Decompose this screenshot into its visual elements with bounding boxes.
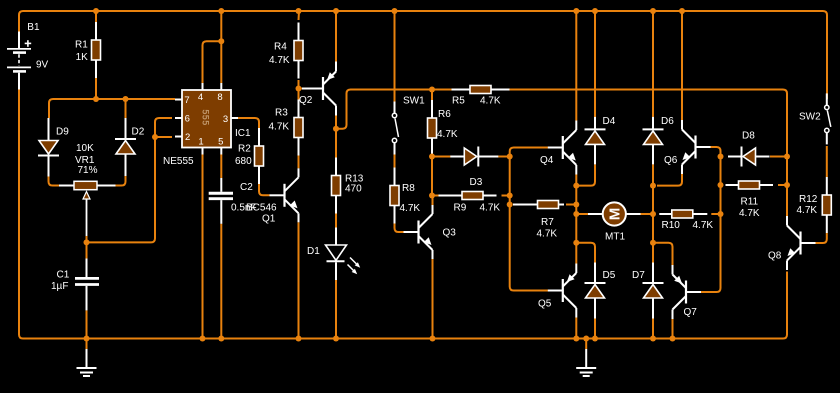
svg-text:Q2: Q2 xyxy=(299,95,313,106)
svg-text:4.7K: 4.7K xyxy=(480,96,501,107)
junction D3/R6 xyxy=(429,154,435,160)
svg-text:1µF: 1µF xyxy=(51,281,68,292)
junction R11 right/Q8 collector xyxy=(784,182,790,188)
capacitor C1 1uF xyxy=(75,259,99,311)
wire 0V bottom rail xyxy=(19,90,787,339)
wire D5 anode to rail xyxy=(594,319,596,339)
wire left base column mid1 xyxy=(509,157,511,196)
junction rail ground2 xyxy=(583,336,589,342)
svg-text:4.7K: 4.7K xyxy=(437,129,458,140)
svg-text:R1: R1 xyxy=(75,40,88,51)
svg-text:R8: R8 xyxy=(402,183,415,194)
wire R6 bottom xyxy=(431,154,433,158)
wire D6 bottom xyxy=(652,165,654,186)
svg-text:MT1: MT1 xyxy=(605,232,625,243)
svg-text:D6: D6 xyxy=(661,116,674,127)
wire pin4 branch xyxy=(203,41,222,83)
wire D4 top from rail xyxy=(594,11,596,117)
wire D7 anode to rail xyxy=(652,319,654,339)
junction rail Q5 xyxy=(573,336,579,342)
wire R2 to Q1 base xyxy=(259,184,270,195)
junction node D3 right xyxy=(507,154,513,160)
svg-text:8: 8 xyxy=(217,92,222,103)
junction rail pins4+8 xyxy=(218,8,224,14)
junction D8 right xyxy=(784,154,790,160)
wire right motor column 2 xyxy=(652,214,654,243)
resistor R5 4.7K xyxy=(452,86,510,94)
wire right base column mid2 xyxy=(720,185,722,214)
transistor Q2 xyxy=(302,62,336,116)
junction motor left xyxy=(573,211,579,217)
wire R10 right xyxy=(711,213,720,215)
junction R10 right xyxy=(718,211,724,217)
svg-text:R10: R10 xyxy=(662,220,681,231)
junction motor right/R10 xyxy=(650,211,656,217)
diode D9 xyxy=(38,118,59,177)
resistor R7 4.7K xyxy=(513,201,564,209)
diode D5 xyxy=(585,263,606,319)
svg-text:D4: D4 xyxy=(603,116,616,127)
wire Q2 collector to R13 xyxy=(335,116,337,158)
wire C1 bottom to rail xyxy=(86,310,88,338)
wire Q4 collector from rail xyxy=(575,11,577,121)
svg-text:4.7K: 4.7K xyxy=(480,203,501,214)
junction rail Q4 collector xyxy=(573,8,579,14)
wire Q7 emitter link xyxy=(653,243,673,266)
transistor Q6 xyxy=(682,120,711,174)
wire R1 top xyxy=(95,11,97,22)
svg-text:4.7K: 4.7K xyxy=(797,205,818,216)
junction R11 left xyxy=(718,182,724,188)
ground xyxy=(576,349,596,376)
wire +9V top rail xyxy=(19,11,827,99)
resistor R9 4.7K xyxy=(439,192,497,200)
svg-text:10K: 10K xyxy=(76,143,94,154)
wire R9 left xyxy=(432,195,444,197)
svg-text:4.7K: 4.7K xyxy=(400,203,421,214)
junction pin4 tee xyxy=(218,38,224,44)
wire right base column to Q7 xyxy=(700,214,721,292)
wire D4 anode link xyxy=(576,165,595,186)
motor MT1 xyxy=(588,202,641,225)
junction rail D5 xyxy=(592,336,598,342)
wire left base column top to Q4 xyxy=(510,148,550,157)
svg-text:4: 4 xyxy=(198,92,203,103)
wire pin1 to rail xyxy=(202,155,204,339)
svg-text:C1: C1 xyxy=(57,270,70,281)
wire D1 cathode to rail xyxy=(335,280,337,339)
svg-text:C2: C2 xyxy=(240,182,253,193)
wire SW1 from rail xyxy=(394,11,396,102)
svg-text:6: 6 xyxy=(185,114,190,125)
wire Q6 emitter link xyxy=(657,174,682,186)
junction wiper node xyxy=(84,239,90,245)
svg-text:D5: D5 xyxy=(603,270,616,281)
wire D8 right xyxy=(770,156,787,158)
svg-text:4.7K: 4.7K xyxy=(269,55,290,66)
wire motor right xyxy=(641,213,654,215)
junction D5/Q5 xyxy=(573,240,579,246)
wire D2 anode to VR1 xyxy=(116,176,126,186)
svg-text:3: 3 xyxy=(223,114,228,125)
junction rail R4 xyxy=(296,8,302,14)
svg-text:5: 5 xyxy=(218,137,223,148)
wire main horizontal from Q2 collector xyxy=(336,90,452,129)
svg-text:R9: R9 xyxy=(454,203,467,214)
resistor R8 4.7K xyxy=(390,168,399,224)
wire R5 to right column xyxy=(510,90,788,157)
wire Q7 collector to rail xyxy=(672,319,674,339)
svg-text:D2: D2 xyxy=(132,127,145,138)
junction rail D4 xyxy=(592,8,598,14)
wire D3 cathode to node xyxy=(498,156,510,158)
wire left base column to Q5 xyxy=(510,205,550,291)
junction node R7 left xyxy=(507,202,513,208)
junction rail pin1 xyxy=(200,336,206,342)
wire D7 top xyxy=(652,243,654,263)
wire Q6 collector from rail xyxy=(681,11,683,120)
junction R1/node7 xyxy=(93,96,99,102)
transistor Q8 xyxy=(787,216,816,270)
junction Q4 emitter/D4 xyxy=(573,183,579,189)
transistor Q5 xyxy=(548,264,577,318)
svg-text:B1: B1 xyxy=(27,22,40,33)
svg-text:Q6: Q6 xyxy=(664,155,678,166)
svg-text:4.7K: 4.7K xyxy=(537,229,558,240)
junction Q6 emitter/D6 xyxy=(650,183,656,189)
wire pin8 from rail xyxy=(220,11,222,83)
resistor R6 4.7K xyxy=(428,100,437,156)
LED D1 xyxy=(326,228,361,281)
svg-text:Q4: Q4 xyxy=(540,155,554,166)
svg-text:4.7K: 4.7K xyxy=(693,220,714,231)
wire C2 to rail xyxy=(220,224,222,339)
wire R4 top xyxy=(298,11,301,20)
svg-text:470: 470 xyxy=(345,184,362,195)
ground xyxy=(77,349,97,376)
junction node R9 right xyxy=(507,193,513,199)
svg-text:D1: D1 xyxy=(307,246,320,257)
transistor Q7 xyxy=(673,265,702,319)
switch SW1 xyxy=(392,102,398,155)
svg-text:Q1: Q1 xyxy=(262,214,276,225)
svg-text:IC1: IC1 xyxy=(235,128,251,139)
svg-text:1: 1 xyxy=(198,137,203,148)
svg-text:7: 7 xyxy=(184,95,189,106)
wire ground1 stem xyxy=(86,339,88,350)
junction rail Q2 emitter xyxy=(333,8,339,14)
junction rail Q6 collector xyxy=(679,8,685,14)
resistor R3 4.7K xyxy=(294,100,303,156)
junction R9/Q3 collector xyxy=(429,193,435,199)
junction rail D1 xyxy=(333,336,339,342)
wire mid column 2 xyxy=(575,205,577,215)
wire mid column to Q5 emitter xyxy=(575,243,577,264)
transistor Q4 xyxy=(548,121,577,175)
svg-text:R4: R4 xyxy=(274,42,287,53)
wire pin2 branch xyxy=(155,136,172,138)
wire R3 top xyxy=(298,89,300,100)
svg-text:R3: R3 xyxy=(275,108,288,119)
resistor R12 4.7K xyxy=(822,177,831,233)
transistor Q1 BC546 xyxy=(270,168,299,222)
wire pin3 to R2 xyxy=(238,118,259,128)
junction rail Q3 emitter xyxy=(430,336,436,342)
potentiometer VR1 10K 71% xyxy=(59,181,116,236)
wire R13 to D1 xyxy=(335,214,337,228)
junction rail Q7 xyxy=(670,336,676,342)
svg-text:D8: D8 xyxy=(742,130,755,141)
wire Q5 collector to rail xyxy=(575,318,577,339)
junction Q2 collector tap xyxy=(333,126,339,132)
resistor R11 4.7K xyxy=(726,181,774,189)
junction D8 left xyxy=(718,154,724,160)
transistor Q3 xyxy=(404,205,433,259)
wire mid column 3 xyxy=(575,214,577,243)
svg-text:NE555: NE555 xyxy=(163,156,194,167)
svg-text:D7: D7 xyxy=(632,270,645,281)
wire node pin7 horizontal xyxy=(49,99,175,118)
wire wiper to pins 2+6 xyxy=(87,118,173,242)
wire D6 top from rail xyxy=(652,11,654,117)
svg-text:Q3: Q3 xyxy=(443,228,457,239)
junction rail C1/ground1 xyxy=(84,336,90,342)
wire C1 top xyxy=(86,242,88,258)
wire R4 bottom xyxy=(298,80,300,89)
svg-text:2: 2 xyxy=(185,132,190,143)
wire Q2 emitter to rail xyxy=(335,11,337,62)
svg-text:R6: R6 xyxy=(438,109,451,120)
svg-text:R12: R12 xyxy=(799,194,818,205)
switch SW2 xyxy=(825,93,831,144)
svg-text:D9: D9 xyxy=(56,127,69,138)
wire D3 anode xyxy=(432,156,451,158)
junction rail R1 xyxy=(93,8,99,14)
wire D9 anode to VR1 xyxy=(49,177,60,186)
wire R12 top to SW2 xyxy=(826,146,828,177)
wire motor left xyxy=(576,213,588,215)
wire SW1 to R8 xyxy=(394,155,396,168)
junction rail C2 xyxy=(218,336,224,342)
diode D7 xyxy=(643,263,664,319)
junction R6 top xyxy=(429,87,435,93)
junction R7 right xyxy=(573,202,579,208)
wire R7 right xyxy=(566,204,576,206)
diode D2 xyxy=(115,118,136,176)
svg-text:R2: R2 xyxy=(238,144,251,155)
svg-text:Q7: Q7 xyxy=(684,307,698,318)
svg-text:R5: R5 xyxy=(452,96,465,107)
wire ground2 stem xyxy=(585,339,587,350)
diode D4 xyxy=(585,117,606,164)
svg-text:4.7K: 4.7K xyxy=(739,208,760,219)
diode D6 xyxy=(643,117,664,164)
wire right base column mid1 xyxy=(720,157,722,186)
wire right column to Q8 collector xyxy=(786,185,788,216)
resistor R13 470 xyxy=(332,158,341,214)
wire pin5 to C2 xyxy=(220,155,222,179)
svg-text:SW1: SW1 xyxy=(403,96,425,107)
diode D3 xyxy=(450,147,498,167)
svg-text:BC546: BC546 xyxy=(246,203,277,214)
wire left base column mid2 xyxy=(509,196,511,205)
wire Q4 emitter down xyxy=(575,175,577,186)
battery B1 9V xyxy=(7,32,31,90)
wire VR1 wiper down xyxy=(86,236,88,242)
wire D5 cathode link xyxy=(576,243,595,263)
svg-text:R7: R7 xyxy=(541,217,554,228)
wire Q1 emitter to rail xyxy=(298,222,300,338)
svg-text:555: 555 xyxy=(201,109,211,125)
wire R6 top xyxy=(431,90,433,101)
wire R9 right to node xyxy=(502,195,510,197)
junction D7/Q7 xyxy=(650,240,656,246)
svg-text:Q5: Q5 xyxy=(538,299,552,310)
junction rail SW1 column xyxy=(392,8,398,14)
svg-text:SW2: SW2 xyxy=(799,112,821,123)
diode D8 xyxy=(728,147,770,167)
wire right column D8-R11 xyxy=(786,157,788,186)
junction rail D6 xyxy=(650,8,656,14)
wire Q8 base to R12 xyxy=(814,233,827,243)
junction rail D7 xyxy=(650,336,656,342)
junction D2/node7 xyxy=(123,96,129,102)
resistor R2 680 xyxy=(255,128,264,184)
wire right base column top to Q6 xyxy=(709,147,721,157)
svg-text:680: 680 xyxy=(235,156,252,167)
svg-text:4.7K: 4.7K xyxy=(269,122,290,133)
wire R11 right xyxy=(778,184,787,186)
svg-text:71%: 71% xyxy=(78,165,98,176)
wire Q3 collector xyxy=(432,196,434,206)
resistor R1 1K xyxy=(92,22,101,78)
wire mid column 1 xyxy=(575,186,577,205)
wire Q2 base xyxy=(299,88,305,90)
junction pin2 xyxy=(152,134,158,140)
wire R8 to Q3 base xyxy=(395,224,404,233)
op-amp U1 / IC1 NE555 timer xyxy=(175,83,238,155)
svg-text:1K: 1K xyxy=(76,52,89,63)
junction R4/Q2 base/R3 xyxy=(296,86,302,92)
resistor R4 4.7K xyxy=(294,23,303,79)
wire R3 bottom to Q1 collector xyxy=(298,156,300,169)
capacitor C2 0.5nF xyxy=(209,178,233,224)
svg-text:M: M xyxy=(607,208,624,221)
svg-text:D3: D3 xyxy=(470,177,483,188)
resistor R10 4.7K xyxy=(659,210,707,218)
wire right motor column 1 xyxy=(652,186,654,214)
svg-text:R11: R11 xyxy=(741,197,759,208)
wire D2 top xyxy=(125,99,127,118)
svg-text:Q8: Q8 xyxy=(768,251,782,262)
svg-text:9V: 9V xyxy=(36,60,49,71)
wire Q3 emitter to rail xyxy=(432,259,434,339)
junction rail Q1 emitter xyxy=(296,336,302,342)
wire D3 left xyxy=(431,157,433,196)
wire R1 bottom xyxy=(95,78,97,99)
